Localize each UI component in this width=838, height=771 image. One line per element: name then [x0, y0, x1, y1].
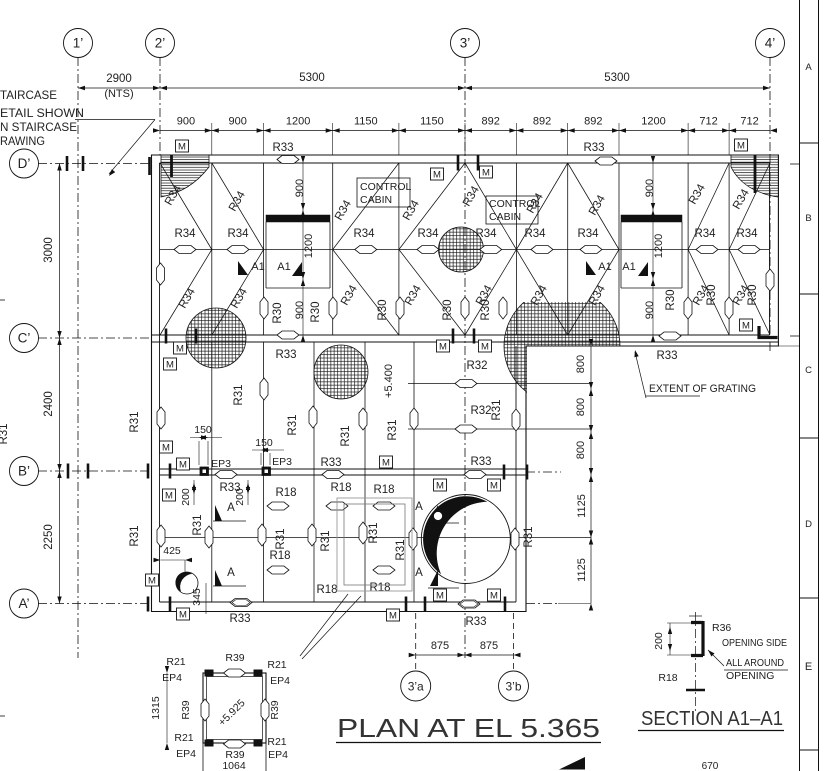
- svg-text:5300: 5300: [299, 72, 325, 84]
- svg-text:1200: 1200: [286, 116, 310, 128]
- svg-text:B: B: [805, 213, 811, 224]
- svg-text:875: 875: [431, 640, 449, 652]
- svg-text:+5.400: +5.400: [383, 364, 395, 398]
- svg-text:M: M: [742, 320, 750, 331]
- svg-text:TAIRCASE: TAIRCASE: [0, 90, 57, 102]
- svg-text:R18: R18: [330, 482, 351, 494]
- svg-text:(NTS): (NTS): [104, 88, 133, 100]
- svg-text:875: 875: [480, 640, 498, 652]
- svg-text:R21: R21: [267, 659, 286, 671]
- svg-text:A1: A1: [277, 261, 290, 273]
- svg-text:R18: R18: [373, 484, 394, 496]
- svg-text:R34: R34: [694, 228, 716, 240]
- svg-text:M: M: [436, 480, 444, 491]
- svg-text:R30: R30: [310, 301, 322, 322]
- svg-text:R31: R31: [129, 525, 141, 546]
- svg-text:E: E: [805, 661, 812, 673]
- svg-text:M: M: [382, 457, 390, 468]
- svg-text:3’a: 3’a: [408, 680, 424, 694]
- svg-text:M: M: [165, 490, 173, 501]
- svg-text:R21: R21: [174, 732, 193, 744]
- svg-text:R31: R31: [523, 526, 535, 547]
- svg-text:900: 900: [644, 301, 656, 319]
- svg-text:CABIN: CABIN: [489, 211, 521, 223]
- svg-text:1150: 1150: [420, 116, 444, 128]
- svg-text:ALL AROUND: ALL AROUND: [726, 657, 784, 669]
- svg-text:R34: R34: [174, 228, 196, 240]
- svg-text:CONTROL: CONTROL: [360, 181, 411, 193]
- svg-text:1200: 1200: [641, 116, 665, 128]
- svg-text:R32: R32: [470, 405, 491, 417]
- svg-text:3’b: 3’b: [505, 680, 521, 694]
- svg-text:892: 892: [482, 116, 500, 128]
- svg-text:1’: 1’: [73, 36, 84, 51]
- svg-text:R31: R31: [491, 399, 503, 420]
- svg-text:712: 712: [740, 116, 758, 128]
- svg-text:R30: R30: [665, 289, 677, 310]
- svg-text:R31: R31: [0, 423, 10, 444]
- svg-text:OPENING: OPENING: [726, 670, 774, 682]
- svg-text:R34: R34: [736, 228, 758, 240]
- svg-text:M: M: [436, 590, 444, 601]
- svg-text:M: M: [179, 459, 187, 470]
- svg-text:900: 900: [294, 301, 306, 319]
- svg-text:1150: 1150: [354, 116, 378, 128]
- svg-text:D: D: [805, 519, 812, 530]
- svg-text:A1: A1: [598, 261, 611, 273]
- svg-text:800: 800: [575, 355, 587, 373]
- svg-text:2’: 2’: [155, 36, 166, 51]
- svg-text:M: M: [178, 141, 186, 152]
- svg-text:EP4: EP4: [268, 749, 288, 761]
- svg-text:R31: R31: [129, 411, 141, 432]
- svg-text:R34: R34: [353, 228, 375, 240]
- svg-text:M: M: [490, 590, 498, 601]
- svg-text:1125: 1125: [576, 494, 588, 518]
- svg-text:670: 670: [702, 761, 719, 771]
- svg-text:EP4: EP4: [270, 675, 290, 687]
- svg-text:R21: R21: [166, 656, 185, 668]
- svg-text:892: 892: [584, 116, 602, 128]
- svg-text:R18: R18: [275, 487, 296, 499]
- svg-text:R33: R33: [470, 456, 491, 468]
- svg-text:2400: 2400: [43, 391, 55, 417]
- svg-text:R36: R36: [712, 622, 731, 634]
- svg-text:R34: R34: [524, 228, 546, 240]
- svg-text:R30: R30: [377, 299, 389, 320]
- svg-text:A: A: [805, 62, 812, 73]
- svg-text:M: M: [166, 359, 174, 370]
- svg-text:R30: R30: [272, 302, 284, 323]
- svg-text:EP3: EP3: [211, 458, 231, 470]
- svg-text:A: A: [415, 501, 423, 513]
- svg-text:1315: 1315: [150, 696, 162, 720]
- svg-text:R30: R30: [747, 284, 759, 305]
- svg-text:N STAIRCASE: N STAIRCASE: [0, 122, 77, 134]
- svg-text:R18: R18: [269, 550, 290, 562]
- svg-text:M: M: [490, 480, 498, 491]
- svg-text:R31: R31: [368, 522, 380, 543]
- svg-text:R31: R31: [287, 414, 299, 435]
- svg-text:R39: R39: [269, 700, 281, 719]
- svg-text:5300: 5300: [604, 72, 630, 84]
- svg-text:R30: R30: [480, 299, 492, 320]
- svg-text:R30: R30: [706, 284, 718, 305]
- svg-text:200: 200: [653, 632, 665, 650]
- svg-text:A1: A1: [251, 261, 264, 273]
- svg-text:RAWING: RAWING: [0, 136, 45, 148]
- svg-text:R21: R21: [267, 736, 286, 748]
- svg-text:R33: R33: [229, 613, 250, 625]
- svg-text:2250: 2250: [43, 524, 55, 550]
- svg-text:800: 800: [575, 441, 587, 459]
- svg-text:1200: 1200: [653, 234, 665, 258]
- svg-text:EXTENT OF GRATING: EXTENT OF GRATING: [649, 383, 756, 395]
- svg-text:M: M: [481, 341, 489, 352]
- svg-text:M: M: [179, 609, 187, 620]
- svg-text:1125: 1125: [576, 558, 588, 582]
- svg-text:900: 900: [294, 179, 306, 197]
- svg-text:R33: R33: [656, 350, 677, 362]
- svg-text:800: 800: [575, 398, 587, 416]
- svg-text:R34: R34: [227, 228, 249, 240]
- svg-text:R33: R33: [320, 457, 341, 469]
- svg-text:1064: 1064: [222, 760, 246, 771]
- svg-text:900: 900: [644, 179, 656, 197]
- svg-text:PLAN AT EL 5.365: PLAN AT EL 5.365: [337, 713, 600, 743]
- svg-text:R31: R31: [275, 528, 287, 549]
- svg-text:200: 200: [180, 488, 192, 506]
- svg-text:C: C: [805, 365, 812, 376]
- svg-text:OPENING SIDE: OPENING SIDE: [722, 637, 787, 649]
- svg-text:3’: 3’: [460, 36, 471, 51]
- svg-text:425: 425: [163, 545, 181, 557]
- svg-text:892: 892: [533, 116, 551, 128]
- svg-text:R32: R32: [466, 360, 487, 372]
- svg-text:M: M: [433, 169, 441, 180]
- svg-text:R34: R34: [417, 228, 439, 240]
- svg-text:R34: R34: [577, 228, 599, 240]
- svg-text:712: 712: [699, 116, 717, 128]
- svg-text:R31: R31: [320, 530, 332, 551]
- svg-text:SECTION A1–A1: SECTION A1–A1: [641, 708, 783, 730]
- svg-text:900: 900: [229, 116, 247, 128]
- svg-text:150: 150: [194, 424, 212, 436]
- svg-text:A: A: [227, 502, 235, 514]
- svg-text:200: 200: [234, 488, 246, 506]
- svg-text:A: A: [227, 567, 235, 579]
- svg-text:M: M: [439, 341, 447, 352]
- svg-text:R18: R18: [316, 584, 337, 596]
- svg-text:R33: R33: [465, 616, 486, 628]
- svg-text:C’: C’: [18, 331, 31, 346]
- svg-text:A: A: [415, 567, 423, 579]
- svg-text:R30: R30: [442, 299, 454, 320]
- svg-text:R18: R18: [658, 672, 677, 684]
- svg-text:R31: R31: [233, 384, 245, 405]
- svg-text:R31: R31: [192, 514, 204, 535]
- svg-text:M: M: [482, 167, 490, 178]
- svg-text:A’: A’: [18, 596, 29, 611]
- svg-text:M: M: [389, 610, 397, 621]
- svg-text:M: M: [148, 575, 156, 586]
- svg-text:R39: R39: [180, 700, 192, 719]
- svg-text:4’: 4’: [765, 36, 776, 51]
- svg-text:R18: R18: [369, 582, 390, 594]
- svg-text:R31: R31: [340, 425, 352, 446]
- svg-text:900: 900: [177, 116, 195, 128]
- svg-text:R31: R31: [387, 419, 399, 440]
- svg-text:D’: D’: [18, 156, 31, 171]
- svg-text:M: M: [737, 140, 745, 151]
- svg-text:B’: B’: [18, 464, 30, 479]
- svg-text:EP4: EP4: [162, 672, 182, 684]
- svg-text:EP4: EP4: [176, 748, 196, 760]
- svg-text:150: 150: [255, 437, 273, 449]
- svg-text:R39: R39: [225, 652, 244, 664]
- svg-text:1200: 1200: [303, 234, 315, 258]
- svg-text:A1: A1: [622, 261, 635, 273]
- svg-text:3000: 3000: [43, 237, 55, 263]
- svg-text:M: M: [162, 442, 170, 453]
- svg-text:R33: R33: [275, 349, 296, 361]
- svg-text:CABIN: CABIN: [360, 194, 392, 206]
- svg-text:345: 345: [191, 588, 203, 606]
- svg-text:EP3: EP3: [272, 456, 292, 468]
- svg-text:R33: R33: [272, 142, 293, 154]
- svg-text:R34: R34: [475, 228, 497, 240]
- svg-text:ETAIL SHOWN: ETAIL SHOWN: [0, 108, 84, 120]
- svg-text:2900: 2900: [106, 73, 132, 85]
- svg-text:R33: R33: [583, 142, 604, 154]
- svg-text:M: M: [176, 343, 184, 354]
